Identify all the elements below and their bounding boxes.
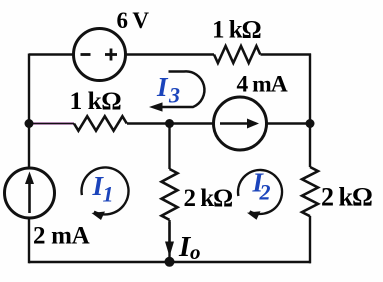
wire middle purple tinted segment xyxy=(29,122,74,125)
svg-text:1 kΩ: 1 kΩ xyxy=(212,17,261,44)
svg-text:I: I xyxy=(156,72,169,102)
wire left lower xyxy=(28,218,30,264)
svg-text:1: 1 xyxy=(103,182,114,207)
svg-text:1 kΩ: 1 kΩ xyxy=(70,86,122,115)
svg-text:4 mA: 4 mA xyxy=(237,72,288,98)
svg-text:3: 3 xyxy=(168,83,180,108)
node center middle xyxy=(165,119,174,128)
loop arrow I2 xyxy=(238,170,282,220)
wire top-right segment xyxy=(261,53,312,55)
loop arrow I1 xyxy=(82,167,129,220)
svg-text:6 V: 6 V xyxy=(117,8,150,33)
resistor R4 2k right xyxy=(302,167,318,216)
svg-text:o: o xyxy=(190,240,201,264)
wire bottom xyxy=(29,261,311,264)
node bottom middle xyxy=(165,257,175,267)
wire middle vertical upper xyxy=(168,124,170,170)
current source I4 4mA xyxy=(214,97,267,150)
wire top-left segment xyxy=(29,53,74,55)
wire middle-right segment xyxy=(267,122,312,124)
svg-text:2: 2 xyxy=(259,180,271,205)
wire top-middle segment xyxy=(125,53,215,55)
wire middle vertical lower xyxy=(168,220,170,262)
node left middle xyxy=(25,119,34,128)
voltage source V1 6V xyxy=(74,29,126,81)
node right middle xyxy=(306,119,315,128)
resistor R2 1k top xyxy=(214,46,260,63)
resistor R1 1k middle xyxy=(74,116,127,130)
loop arrow I3 xyxy=(149,71,204,111)
svg-text:2 mA: 2 mA xyxy=(33,223,90,250)
wire right lower xyxy=(309,216,311,263)
arrow Io xyxy=(165,222,174,257)
svg-text:2 kΩ: 2 kΩ xyxy=(321,183,372,212)
wire middle segment to source xyxy=(127,122,214,124)
wire right upper xyxy=(309,54,311,168)
resistor R3 2k middle xyxy=(162,169,178,220)
current source I5 2mA xyxy=(5,168,55,218)
wire left upper xyxy=(28,54,30,169)
svg-text:2 kΩ: 2 kΩ xyxy=(184,185,233,212)
